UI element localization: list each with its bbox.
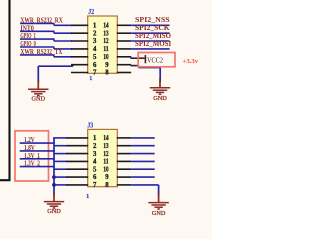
wire to J3 pin 3 — [54, 153, 68, 155]
net label INT0 — [20, 24, 34, 32]
wire J2 pin 10 to VCC2 — [131, 57, 139, 58]
svg-text:8: 8 — [105, 70, 109, 77]
svg-text:9: 9 — [105, 62, 109, 69]
J3 pin 13 — [117, 145, 131, 147]
wire from J3 pin 14 — [131, 137, 155, 139]
wire to J3 pin 7 — [54, 184, 68, 186]
J2 pin 13 number — [103, 30, 109, 37]
wire to J3 pin 5 — [54, 168, 68, 170]
net label 1.3V_2 — [24, 160, 40, 168]
svg-text:GND: GND — [32, 96, 46, 103]
J3 pin 8 number — [105, 182, 109, 189]
wire from J3 pin 12 — [131, 153, 155, 155]
J3 pin 2 — [67, 145, 89, 147]
net label 1.3V_1 — [24, 152, 40, 160]
svg-text:7: 7 — [93, 70, 97, 77]
highlight box around supply labels — [15, 131, 49, 181]
svg-text:3: 3 — [93, 38, 97, 45]
wire net 1.2V — [20, 142, 55, 144]
svg-text:13: 13 — [103, 30, 109, 37]
net label XWR_RS232_RX — [20, 17, 62, 25]
svg-text:8: 8 — [105, 182, 109, 189]
svg-text:XWR_RS232_TX: XWR_RS232_TX — [20, 48, 62, 56]
J2 pin 9 — [117, 64, 131, 66]
net label 1.2V — [24, 136, 35, 144]
svg-text:1: 1 — [93, 135, 97, 142]
J3 pin 9 — [117, 176, 131, 178]
svg-text:1.8V: 1.8V — [24, 144, 35, 152]
svg-text:VCC2: VCC2 — [147, 56, 163, 64]
J3 pin 4 — [67, 160, 89, 162]
wire J3 pin 8 to GND — [131, 185, 158, 196]
J3 pin 11 number — [103, 159, 109, 166]
net label XWR_RS232_TX — [20, 48, 62, 56]
wire J2 pin 9 — [131, 64, 139, 67]
svg-text:INT0: INT0 — [20, 24, 34, 32]
svg-text:11: 11 — [103, 159, 109, 166]
J2 pin 2 — [71, 32, 88, 34]
wire to J3 pin 6 — [54, 176, 68, 178]
J2 pin 6 number — [93, 62, 97, 69]
wire net SPI2_SCK from J2 pin 13 — [131, 32, 169, 34]
ground GND (below VCC2) — [150, 79, 170, 102]
wire net 1.8V — [20, 150, 55, 152]
wire net GPIO_1 to J2 pin 3 — [20, 39, 72, 41]
svg-text:GND: GND — [153, 95, 167, 102]
J2 pin 14 — [117, 24, 131, 26]
sheet border frame — [0, 0, 11, 181]
junction (J3 pin 6) — [52, 175, 56, 179]
svg-text:1.3V_2: 1.3V_2 — [24, 160, 40, 168]
net label SPI2_NSS — [135, 16, 170, 24]
J3 pin 10 number — [103, 166, 109, 173]
svg-text:J2: J2 — [88, 9, 94, 16]
J2 pin 12 — [117, 40, 131, 42]
wire net GPIO_0 to J2 pin 4 — [20, 47, 72, 49]
wire net 1.3V_1 — [20, 158, 55, 160]
svg-text:GPIO_1: GPIO_1 — [20, 32, 36, 40]
svg-text:14: 14 — [103, 135, 109, 142]
J2 pin 3 — [71, 40, 88, 42]
J3 pin 12 — [117, 153, 131, 155]
wire from J3 pin 9 — [131, 176, 155, 178]
J3 pin 6 — [67, 176, 89, 178]
wire vertical to GND (left of J3) — [53, 137, 55, 195]
wire from J3 pin 11 — [131, 160, 155, 162]
J2 pin 7 — [71, 72, 88, 74]
svg-text:J3: J3 — [87, 122, 93, 129]
svg-text:1.3V_1: 1.3V_1 — [24, 152, 40, 160]
wire net INT0 to J2 pin 2 — [20, 31, 72, 33]
ground GND (right below J3) — [148, 194, 168, 218]
J3 pin 9 number — [105, 174, 109, 181]
svg-text:1: 1 — [86, 193, 89, 200]
svg-text:4: 4 — [93, 46, 97, 53]
power port VCC2 — [139, 55, 163, 64]
J3 pin 1 number — [93, 135, 97, 142]
net label GPIO_0 — [20, 40, 36, 48]
wire net SPI2_MOSI from J2 pin 11 — [131, 48, 169, 50]
net label 1.8V — [24, 144, 35, 152]
J3 pin 7 — [67, 184, 89, 186]
svg-text:SPI2_MOSI: SPI2_MOSI — [135, 40, 171, 48]
svg-text:6: 6 — [93, 62, 97, 69]
J2 pin 5 number — [93, 54, 97, 61]
wire to J3 pin 1 — [54, 137, 68, 139]
wire net XWR_RS232_TX to J2 pin 5 — [20, 55, 72, 57]
svg-text:10: 10 — [103, 166, 109, 173]
svg-text:1: 1 — [89, 75, 92, 82]
wire net XWR_RS232_RX to J2 pin 1 — [20, 23, 72, 25]
svg-text:5: 5 — [93, 54, 97, 61]
J3 pin 6 number — [93, 174, 97, 181]
net label SPI2_SCK — [135, 24, 170, 32]
J3 pin 7 number — [93, 182, 97, 189]
J3 pin 8 — [117, 184, 131, 186]
J3 pin 11 — [117, 160, 131, 162]
wire to J3 pin 2 — [54, 145, 68, 147]
J2 pin 4 number — [93, 46, 97, 53]
J3 pin 3 — [67, 153, 89, 155]
value label +3.3v — [183, 58, 199, 65]
J3 pin 1 marker — [86, 193, 89, 200]
J2 pin 10 number — [103, 54, 109, 61]
wire from J3 pin 10 — [131, 168, 155, 170]
connector J2 body — [88, 16, 118, 73]
J3 pin 4 number — [93, 159, 97, 166]
wire to GND (below VCC2) — [139, 66, 161, 82]
J2 pin 1 marker — [89, 75, 92, 82]
J3 pin 3 number — [93, 151, 97, 158]
wire net 1.3V_2 — [20, 166, 55, 168]
J3 pin 14 number — [103, 135, 109, 142]
wire J2 pin 6 to GND — [38, 65, 73, 83]
svg-text:2: 2 — [93, 30, 97, 37]
net label GPIO_1 — [20, 32, 36, 40]
svg-text:11: 11 — [103, 46, 109, 53]
svg-text:SPI2_NSS: SPI2_NSS — [135, 16, 170, 24]
svg-text:2: 2 — [93, 143, 97, 150]
svg-text:3: 3 — [93, 151, 97, 158]
J3 pin 14 — [117, 137, 131, 139]
svg-text:1: 1 — [93, 23, 97, 30]
wire net SPI2_NSS from J2 pin 14 — [131, 24, 169, 26]
J3 pin 5 — [67, 168, 89, 170]
svg-text:12: 12 — [103, 151, 109, 158]
svg-text:1.2V: 1.2V — [24, 136, 35, 144]
wire to J3 pin 4 — [54, 160, 68, 162]
svg-text:13: 13 — [103, 143, 109, 150]
J3 pin 13 number — [103, 143, 109, 150]
net label SPI2_MOSI — [135, 40, 171, 48]
J2 pin 1 — [71, 24, 88, 26]
wire net SPI2_MISO from J2 pin 12 — [131, 40, 169, 42]
J2 pin 10 — [117, 56, 131, 58]
J2 pin 4 — [71, 48, 88, 50]
designator J3 — [87, 122, 93, 129]
connector J3 body — [88, 129, 118, 186]
svg-text:12: 12 — [103, 38, 109, 45]
svg-text:6: 6 — [93, 174, 97, 181]
J2 pin 8 number — [105, 70, 109, 77]
svg-text:SPI2_MISO: SPI2_MISO — [135, 32, 172, 40]
J2 pin 11 — [117, 48, 131, 50]
svg-text:+3.3v: +3.3v — [183, 58, 199, 65]
J2 pin 3 number — [93, 38, 97, 45]
J2 pin 11 number — [103, 46, 109, 53]
J2 pin 2 number — [93, 30, 97, 37]
highlight box around VCC2 — [138, 53, 175, 67]
designator J2 — [88, 9, 94, 16]
svg-text:GPIO_0: GPIO_0 — [20, 40, 36, 48]
J2 pin 14 number — [103, 23, 109, 30]
svg-text:XWR_RS232_RX: XWR_RS232_RX — [20, 17, 62, 25]
J2 pin 13 — [117, 32, 131, 34]
J2 pin 7 number — [93, 70, 97, 77]
svg-text:9: 9 — [105, 174, 109, 181]
J3 pin 5 number — [93, 166, 97, 173]
J2 pin 8 — [117, 72, 131, 74]
svg-text:SPI2_SCK: SPI2_SCK — [135, 24, 170, 32]
J2 pin 5 — [71, 56, 88, 58]
J2 pin 6 — [71, 64, 88, 66]
svg-text:14: 14 — [103, 23, 109, 30]
wire from J3 pin 13 — [131, 145, 155, 147]
junction (J3 pin 7) — [52, 183, 56, 187]
svg-text:10: 10 — [103, 54, 109, 61]
J3 pin 12 number — [103, 151, 109, 158]
svg-text:5: 5 — [93, 166, 97, 173]
ground GND (left of J2) — [28, 80, 48, 102]
J2 pin 12 number — [103, 38, 109, 45]
J3 pin 1 — [67, 137, 89, 139]
svg-text:7: 7 — [93, 182, 97, 189]
ground GND (left of J3) — [44, 193, 64, 216]
J3 pin 2 number — [93, 143, 97, 150]
net label SPI2_MISO — [135, 32, 172, 40]
J3 pin 10 — [117, 168, 131, 170]
J2 pin 9 number — [105, 62, 109, 69]
svg-text:GND: GND — [152, 210, 166, 217]
svg-text:4: 4 — [93, 159, 97, 166]
J2 pin 1 number — [93, 23, 97, 30]
svg-text:GND: GND — [47, 208, 61, 215]
